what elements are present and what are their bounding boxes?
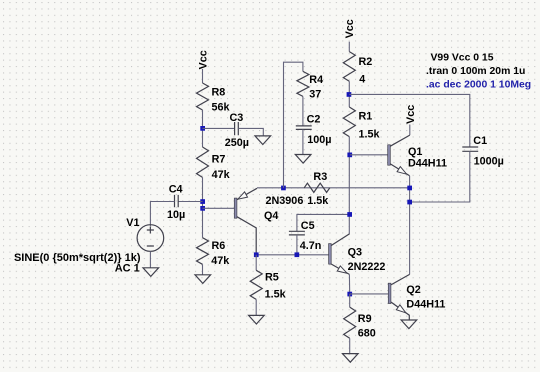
svg-text:4: 4 — [359, 74, 365, 86]
svg-text:47k: 47k — [211, 255, 230, 267]
svg-text:37: 37 — [309, 89, 321, 101]
node junction Q3 emitter/R9/Q2 base — [347, 292, 352, 297]
resistor R7 — [197, 147, 231, 181]
capacitor C1 — [462, 135, 504, 168]
svg-text:R5: R5 — [265, 272, 279, 284]
svg-text:250µ: 250µ — [225, 137, 249, 149]
svg-text:Q2: Q2 — [406, 284, 420, 296]
wire C3 to ground — [238, 128, 263, 135]
resistor R1 — [343, 107, 380, 140]
svg-text:2N2222: 2N2222 — [348, 261, 386, 273]
node junction R1/Q1 base — [347, 153, 352, 158]
svg-text:.ac dec 2000 1 10Meg: .ac dec 2000 1 10Meg — [426, 79, 531, 90]
node junction rail/R4 branch — [281, 186, 286, 191]
power flag Vcc (above R2) — [344, 19, 356, 38]
wire node to C3 — [203, 127, 235, 129]
transistor Q1 D44H11 — [388, 135, 447, 176]
resistor R2 — [343, 52, 372, 86]
node junction R2/R1/C1 rail — [347, 92, 352, 97]
svg-text:V1: V1 — [126, 217, 139, 229]
wire C1 to output rail — [410, 151, 470, 202]
wire R2 to R1 — [348, 81, 350, 107]
svg-text:C4: C4 — [169, 183, 183, 195]
wire C4 to V1 — [150, 202, 174, 227]
svg-text:C5: C5 — [301, 220, 315, 232]
power flag Vcc (Q1 collector) — [405, 105, 417, 124]
node junction C4/divider — [200, 199, 205, 204]
ground (R5) — [249, 315, 265, 324]
transistor Q4 2N3906 — [234, 188, 303, 255]
svg-text:1.5k: 1.5k — [265, 289, 287, 301]
node junction R8/R7/C3 — [200, 126, 205, 131]
svg-text:Vcc: Vcc — [344, 19, 356, 38]
resistor R5 — [250, 255, 286, 315]
svg-text:Q4: Q4 — [264, 210, 278, 222]
capacitor C2 — [296, 113, 332, 146]
wire Q4 collector to Q3 base — [256, 254, 329, 256]
wire branch riser — [284, 62, 303, 188]
svg-text:Q3: Q3 — [348, 246, 362, 258]
ground (R6) — [195, 275, 211, 284]
node junction output/feedback rail — [407, 186, 412, 191]
wire C4 to divider node — [178, 201, 202, 203]
voltage source V1 — [126, 217, 163, 251]
wire Vcc to Q1 collector — [409, 125, 411, 136]
wire node to C5 — [297, 214, 350, 231]
capacitor C4 — [167, 183, 185, 221]
resistor R3 — [304, 171, 330, 207]
wire V1 to ground — [149, 251, 151, 267]
node junction C5/base rail — [295, 252, 300, 257]
svg-text:Vcc: Vcc — [198, 50, 210, 69]
transistor Q2 D44H11 — [388, 274, 445, 319]
svg-text:R3: R3 — [313, 171, 327, 183]
transistor Q3 2N2222 — [329, 234, 386, 275]
wire R7 to R6 (through input nodes) — [202, 177, 204, 237]
wire R8 to R7 (node with C3) — [202, 110, 204, 147]
capacitor C3 — [225, 112, 249, 149]
capacitor C5 — [289, 220, 322, 252]
svg-text:R6: R6 — [212, 240, 226, 252]
svg-text:C1: C1 — [473, 135, 487, 147]
svg-text:R7: R7 — [212, 153, 226, 165]
svg-text:10µ: 10µ — [167, 209, 185, 221]
wire C5 to Q3 base rail — [296, 235, 298, 255]
wire output node vertical — [409, 176, 411, 275]
svg-text:AC 1: AC 1 — [115, 263, 140, 275]
wire C2 to ground — [302, 129, 304, 154]
ground (V1) — [143, 268, 159, 277]
svg-text:R1: R1 — [359, 111, 373, 123]
svg-text:R2: R2 — [359, 56, 373, 68]
node junction C5 rail/Q3 collector — [347, 212, 352, 217]
svg-text:2N3906: 2N3906 — [266, 195, 304, 207]
wire feedback rail (Q4 emitter to output) — [257, 187, 410, 189]
resistor R8 — [197, 83, 231, 114]
svg-text:D44H11: D44H11 — [408, 157, 447, 169]
wire R6 to ground — [202, 264, 204, 274]
wire R4 to C2 — [302, 96, 304, 125]
svg-text:100µ: 100µ — [307, 134, 331, 146]
ground (Q2 emitter) — [401, 320, 417, 329]
resistor R9 — [344, 294, 376, 353]
svg-text:R8: R8 — [212, 86, 226, 98]
svg-text:Q1: Q1 — [408, 146, 422, 158]
wire R1 through base node down to C5 node — [348, 137, 350, 234]
svg-text:R4: R4 — [309, 74, 323, 86]
svg-text:R9: R9 — [358, 313, 372, 325]
svg-text:1000µ: 1000µ — [474, 156, 504, 168]
svg-text:56k: 56k — [212, 102, 231, 114]
wire Q3 emitter to R9 node — [348, 274, 350, 294]
svg-text:680: 680 — [358, 328, 376, 340]
resistor R6 — [197, 238, 231, 267]
svg-text:1.5k: 1.5k — [307, 195, 329, 207]
node junction output/C1 rail — [407, 200, 412, 205]
node junction Q4 base/divider — [200, 206, 205, 211]
svg-text:47k: 47k — [212, 169, 231, 181]
ground (R9) — [343, 354, 359, 363]
wire Vcc to R8 — [202, 69, 204, 83]
wire Q1 base — [350, 154, 388, 156]
svg-text:.tran 0 100m 20m 1u: .tran 0 100m 20m 1u — [426, 66, 525, 77]
svg-text:C3: C3 — [230, 112, 244, 124]
wire top rail to C1 — [349, 94, 470, 146]
ground (C3) — [255, 136, 271, 145]
wire Vcc to R2 — [348, 42, 350, 52]
ground (C2) — [295, 155, 311, 164]
svg-text:4.7n: 4.7n — [300, 240, 322, 252]
svg-text:C2: C2 — [307, 113, 321, 125]
svg-text:Vcc: Vcc — [405, 105, 417, 124]
wire node to Q4 base — [203, 207, 235, 209]
power flag Vcc (left, above R8) — [198, 50, 210, 69]
resistor R4 — [297, 71, 323, 100]
svg-text:V99 Vcc 0 15: V99 Vcc 0 15 — [431, 52, 494, 63]
wire Q2 base — [350, 293, 389, 295]
svg-text:D44H11: D44H11 — [406, 299, 445, 311]
node junction Q4 collector/R5 — [254, 252, 259, 257]
svg-text:1.5k: 1.5k — [359, 128, 381, 140]
